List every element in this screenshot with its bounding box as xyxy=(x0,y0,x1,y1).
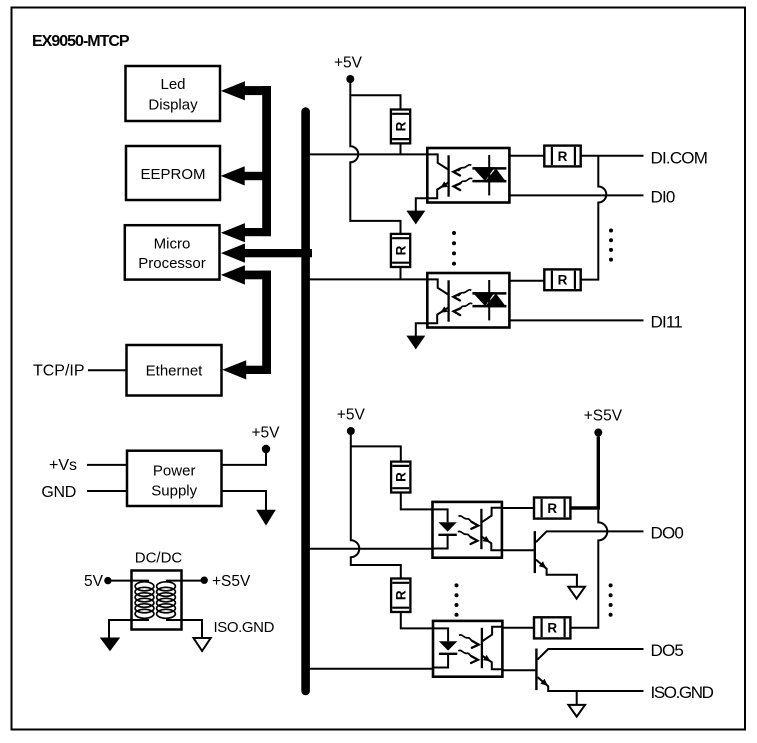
wire R5 to U3 anode xyxy=(401,493,433,510)
wire Power Supply to +5V xyxy=(222,452,267,465)
svg-text:+S5V: +S5V xyxy=(212,573,251,590)
svg-text:+S5V: +S5V xyxy=(584,408,623,425)
optocoupler U3 (DO0) xyxy=(433,502,502,558)
wire U2 emitter to ground xyxy=(416,323,428,336)
svg-text:R: R xyxy=(393,121,408,131)
wire +5V branch to R1 xyxy=(350,95,400,109)
svg-text:R: R xyxy=(394,590,409,600)
wire DI.COM joining R3 and R4 with hop over DI0 xyxy=(581,156,607,280)
block Led Display xyxy=(126,66,221,121)
node +5V dot (power supply) xyxy=(262,445,270,453)
bus arrow to Led Display xyxy=(221,81,271,100)
svg-text:R: R xyxy=(558,273,568,288)
bus bar xyxy=(301,112,310,692)
node +S5V dot (DO section) xyxy=(594,429,602,437)
ground arrow (U2 emitter) xyxy=(406,336,425,350)
svg-text:GND: GND xyxy=(41,484,76,501)
ellipsis dots (DO terminals) xyxy=(609,583,613,616)
svg-text:R: R xyxy=(547,621,557,636)
svg-text:R: R xyxy=(547,501,557,516)
ellipsis dots (DO optos) xyxy=(455,583,459,616)
svg-text:Display: Display xyxy=(148,97,198,114)
svg-text:Ethernet: Ethernet xyxy=(146,363,204,380)
wire TCP/IP to Ethernet xyxy=(88,369,127,371)
svg-text:DI11: DI11 xyxy=(651,313,683,332)
resistor R5 (U3 LED series) xyxy=(391,462,410,493)
wire bus to optocoupler U4 (DO5 row) xyxy=(309,668,433,670)
wire +S5V stem xyxy=(597,437,600,510)
ground arrow (power supply) xyxy=(256,510,276,526)
svg-text:Micro: Micro xyxy=(154,235,191,252)
transformer T1 box xyxy=(132,571,182,630)
svg-text:R: R xyxy=(394,472,409,482)
wire R6 to +S5V rail xyxy=(570,506,599,509)
svg-text:+5V: +5V xyxy=(337,407,366,424)
ground arrow (DC/DC primary) xyxy=(100,638,120,652)
bus arrow trunk (upper) xyxy=(262,86,271,236)
svg-text:R: R xyxy=(393,245,408,255)
svg-text:Processor: Processor xyxy=(138,255,206,272)
wire R1 to DI0 row xyxy=(400,143,402,154)
wire 5V to transformer xyxy=(108,580,149,582)
svg-text:R: R xyxy=(558,149,568,164)
wire U1 to R3 xyxy=(509,155,544,157)
block Ethernet xyxy=(127,345,222,396)
wire bus to optocoupler U2 (DI11 row) xyxy=(309,278,427,280)
wire U4 to Q2 base xyxy=(502,669,535,671)
wire GND to Power Supply xyxy=(87,490,127,492)
resistor R6 (DO0 pull-up) xyxy=(534,498,570,519)
block EEPROM xyxy=(126,146,220,200)
optocoupler U2 (DI11) xyxy=(427,273,509,328)
ellipsis dots (DI terminals) xyxy=(609,229,613,262)
wire U1 emitter to ground xyxy=(416,198,428,211)
svg-text:EEPROM: EEPROM xyxy=(140,166,205,183)
svg-text:+5V: +5V xyxy=(334,55,363,72)
iso ground symbol (DC/DC secondary) xyxy=(194,638,211,651)
svg-text:Power: Power xyxy=(153,463,196,480)
resistor R4 (DI11 series) xyxy=(544,269,580,290)
wire R2 to DI11 row xyxy=(400,267,402,279)
resistor R1 (DI0 pull-up) xyxy=(391,110,410,144)
wire U3 collector to R6 xyxy=(502,507,534,509)
svg-text:TCP/IP: TCP/IP xyxy=(33,363,85,380)
bus arrow to Micro Processor (1) xyxy=(221,223,271,242)
bus arrow to EEPROM xyxy=(221,166,271,185)
wire +5V vertical with hop over DI0 row xyxy=(350,82,400,234)
wire U2 to DI11 terminal xyxy=(509,319,643,321)
wire transformer primary to ground xyxy=(109,620,149,638)
wire +5V branch to R5 xyxy=(351,446,401,461)
svg-text:Led: Led xyxy=(160,76,185,93)
svg-text:Supply: Supply xyxy=(151,483,197,500)
bus arrow to Micro Processor (3) xyxy=(221,265,271,284)
bus arrow to Ethernet xyxy=(222,360,271,379)
transformer T1 windings xyxy=(135,582,175,619)
node 5V dot xyxy=(104,577,111,584)
bus arrow trunk (lower) xyxy=(262,271,271,374)
wire transformer to +S5V xyxy=(166,580,204,582)
node +S5V dot (DC/DC) xyxy=(201,577,208,584)
svg-text:+5V: +5V xyxy=(251,424,280,441)
block Micro Processor xyxy=(125,225,220,279)
wire R3 to DI.COM terminal xyxy=(581,155,644,157)
resistor R8 (DO5 pull-up) xyxy=(534,617,570,638)
svg-text:DO5: DO5 xyxy=(651,641,684,660)
wire +Vs to Power Supply xyxy=(87,464,127,466)
transistor Q2 (DO5 driver) xyxy=(536,649,643,692)
ground arrow (U1 emitter) xyxy=(406,211,425,225)
resistor R2 (DI11 pull-up) xyxy=(391,234,410,267)
svg-text:DC/DC: DC/DC xyxy=(135,550,183,567)
wire +S5V vertical with hop over DO0 line xyxy=(570,509,607,628)
wire R7 to U4 anode xyxy=(401,612,433,628)
wire U2 to R4 xyxy=(509,280,544,282)
wire bus to optocoupler U3 (DO0 row) xyxy=(309,548,433,550)
wire U4 collector to R8 xyxy=(502,627,534,629)
wire transformer secondary to ISO.GND xyxy=(166,620,202,638)
ellipsis dots (DI optos) xyxy=(452,231,456,266)
svg-text:+Vs: +Vs xyxy=(49,457,77,474)
node +5V dot (DO section) xyxy=(347,427,355,435)
resistor R3 (DI.COM series) xyxy=(544,146,580,167)
bus arrow to Micro Processor (2, from bus) xyxy=(221,244,312,263)
wire bus to optocoupler U1 (DI0 row) xyxy=(309,153,427,155)
wire Power Supply ground branch xyxy=(222,491,267,511)
node +5V dot (DI section) xyxy=(346,75,354,83)
resistor R7 (U4 LED series) xyxy=(391,579,410,613)
iso ground symbol (Q2 emitter) xyxy=(568,705,585,717)
svg-text:DI.COM: DI.COM xyxy=(651,148,708,167)
iso ground symbol (Q1 emitter) xyxy=(568,587,585,599)
optocoupler U1 (DI0) xyxy=(427,148,509,203)
wire U1 to DI0 terminal xyxy=(509,194,643,196)
wire +5V vertical with hop over DO0 row xyxy=(351,435,401,579)
svg-text:EX9050-MTCP: EX9050-MTCP xyxy=(32,33,130,50)
svg-text:DO0: DO0 xyxy=(651,524,684,543)
svg-text:ISO.GND: ISO.GND xyxy=(214,619,275,636)
wire Q2 emitter ground branch xyxy=(576,691,578,705)
svg-text:ISO.GND: ISO.GND xyxy=(651,683,714,702)
optocoupler U4 (DO5) xyxy=(433,621,502,677)
block Power Supply xyxy=(127,451,222,506)
svg-text:5V: 5V xyxy=(84,573,104,590)
svg-text:DI0: DI0 xyxy=(651,188,675,207)
transistor Q1 (DO0 driver) xyxy=(535,531,644,587)
wire U3 to Q1 base xyxy=(502,549,534,551)
